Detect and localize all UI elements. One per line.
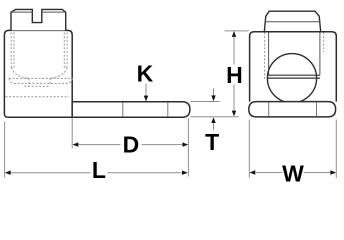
svg-text:H: H	[226, 62, 243, 88]
svg-text:T: T	[205, 129, 219, 155]
svg-text:L: L	[92, 157, 106, 183]
svg-text:K: K	[137, 61, 154, 87]
svg-text:D: D	[123, 131, 140, 157]
svg-text:W: W	[282, 161, 304, 187]
